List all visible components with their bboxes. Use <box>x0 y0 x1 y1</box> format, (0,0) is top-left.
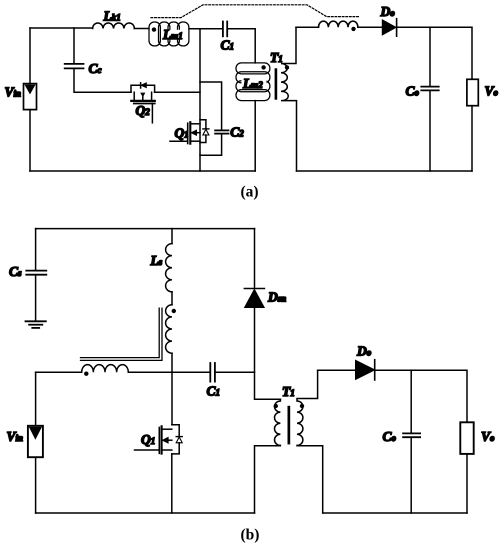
svg-text:Vo: Vo <box>485 83 499 98</box>
wire Lk1 to Lm1 <box>134 28 149 30</box>
svg-text:C2: C2 <box>230 124 244 139</box>
dot secondary coil <box>351 27 355 31</box>
svg-text:Dsn: Dsn <box>267 290 286 305</box>
wire Vo bottom (a) <box>471 106 473 171</box>
inductor Ls <box>166 244 172 292</box>
wire left vertical (b) <box>35 372 37 426</box>
wire Co bottom (b) <box>410 438 412 513</box>
wire Do to output corner (b) <box>375 370 467 422</box>
wire C1 to Lm2 top <box>227 29 255 63</box>
capacitor C2 branch <box>200 82 222 130</box>
wire Lm1 to C1 (junction at x=200) <box>189 28 223 30</box>
capacitor C1 (a) <box>223 22 227 37</box>
wire Vin to bottom rail (b) <box>35 457 37 513</box>
wire coil to Do <box>358 26 382 28</box>
wire bottom-left rail (a) <box>30 170 255 172</box>
inductor secondary leakage coil (a) <box>319 21 358 27</box>
wire Cc to Q2 <box>74 69 131 92</box>
svg-text:Vin: Vin <box>7 429 24 444</box>
wire Lm2 bottom to rail <box>254 101 256 171</box>
coupled winding vertical (b) <box>166 305 172 353</box>
svg-text:Cs: Cs <box>9 264 22 279</box>
transformer T1 (b) primary winding <box>255 399 281 513</box>
wire Q1 to bottom rail (b) <box>171 454 173 513</box>
wire winding to Q1 drain (b) <box>171 353 173 425</box>
transformer T1 (b) core <box>288 406 291 445</box>
diode Dsn <box>244 289 264 308</box>
transistor Q1 (b) <box>135 425 183 454</box>
svg-text:Q1: Q1 <box>141 432 155 447</box>
wire bottom-right rail (a) <box>297 170 473 172</box>
svg-text:Do: Do <box>356 344 372 359</box>
load Vo (a) <box>467 79 478 105</box>
capacitor Co (b) branch top <box>410 370 412 433</box>
svg-text:T1: T1 <box>270 50 283 65</box>
svg-text:C1: C1 <box>207 383 221 398</box>
svg-text:Q2: Q2 <box>136 103 151 118</box>
wire bottom-left rail (b) <box>36 512 255 514</box>
svg-text:Lm2: Lm2 <box>242 76 263 91</box>
inductor Lk1 <box>93 23 135 29</box>
svg-text:Co: Co <box>406 83 420 98</box>
svg-text:T1: T1 <box>282 384 295 399</box>
dot T1 (a) secondary <box>285 65 289 69</box>
dot coupled winding horizontal <box>84 372 88 376</box>
capacitor Co (b) <box>403 433 420 437</box>
svg-text:Ls: Ls <box>150 253 163 268</box>
transistor Q2 (sideways MOSFET) <box>131 83 155 123</box>
wire Co bottom (a) <box>429 91 431 171</box>
wire left vertical bottom (a) <box>29 110 31 171</box>
dot T1 (b) secondary <box>300 404 304 408</box>
capacitor Co (a) branch top <box>429 27 431 86</box>
svg-text:(a): (a) <box>241 184 259 201</box>
wire main vertical (a) <box>199 29 201 171</box>
wire winding to C1 (b) <box>128 371 210 373</box>
dot coupled winding vertical <box>172 309 176 313</box>
diode Do (b) <box>356 360 375 380</box>
wire Cs to ground <box>35 275 37 321</box>
dotted coupling line (a) <box>151 5 359 18</box>
wire Q2 to main vertical <box>155 91 200 93</box>
wire top rail (b) <box>36 228 255 230</box>
dot Lm1 <box>152 27 156 31</box>
svg-text:Vo: Vo <box>481 429 495 444</box>
svg-text:Vin: Vin <box>5 84 22 99</box>
wire Ls to winding (b) <box>171 292 173 305</box>
svg-text:Co: Co <box>383 429 397 444</box>
capacitor Cs <box>26 271 46 275</box>
svg-text:C1: C1 <box>221 38 235 53</box>
dot T1 (b) primary <box>274 404 278 408</box>
source Vin (b) <box>28 426 43 457</box>
diode Do (a) <box>382 19 396 37</box>
source Vin (a) <box>24 84 37 110</box>
dot Lm2 <box>261 65 265 69</box>
wire C1 to Dsn branch (b) <box>215 371 254 373</box>
wire Ls branch top (b) <box>171 229 173 244</box>
transformer T1 (b) secondary winding <box>297 370 323 513</box>
wire Dsn to primary top (b) <box>255 308 281 400</box>
wire bottom-right rail (b) <box>323 512 467 514</box>
label Lm2 <box>242 78 267 88</box>
wire secondary top to coil <box>296 26 319 28</box>
wire Vo bottom (b) <box>466 454 468 513</box>
wire Dsn branch top (b) <box>254 229 256 289</box>
core coupled inductor (b) <box>81 308 163 360</box>
ground <box>26 321 46 328</box>
wire left to winding (b) <box>36 371 82 373</box>
capacitor C2 <box>215 130 228 133</box>
capacitor Cc branch wire upper <box>73 28 75 63</box>
wire top-left rail (a) <box>30 27 93 29</box>
transformer T1 (a) secondary winding <box>281 27 297 171</box>
capacitor Co (a) <box>421 87 438 91</box>
capacitor C1 (b) <box>210 363 215 382</box>
svg-text:Cc: Cc <box>89 61 102 76</box>
wire C2 bottom return <box>200 134 222 155</box>
svg-text:Lk1: Lk1 <box>103 8 121 23</box>
coupled winding horizontal (b) <box>82 365 129 373</box>
load Vo (b) <box>460 422 473 454</box>
wire Do to output corner (a) <box>397 27 472 79</box>
transformer T1 (a) primary Lm2 <box>236 63 270 101</box>
transformer T1 (a) core <box>275 68 278 99</box>
inductor Lm1 <box>149 22 189 46</box>
wire secondary to Do (b) <box>318 369 356 371</box>
svg-text:Do: Do <box>380 4 396 19</box>
transistor Q1 (a) <box>170 120 209 144</box>
capacitor Cs branch top <box>35 229 37 270</box>
wire left vertical top (a) <box>29 28 31 84</box>
svg-text:Q1: Q1 <box>175 126 189 141</box>
capacitor Cc <box>65 64 84 69</box>
label Lm1 <box>161 30 182 40</box>
svg-text:(b): (b) <box>241 526 260 543</box>
